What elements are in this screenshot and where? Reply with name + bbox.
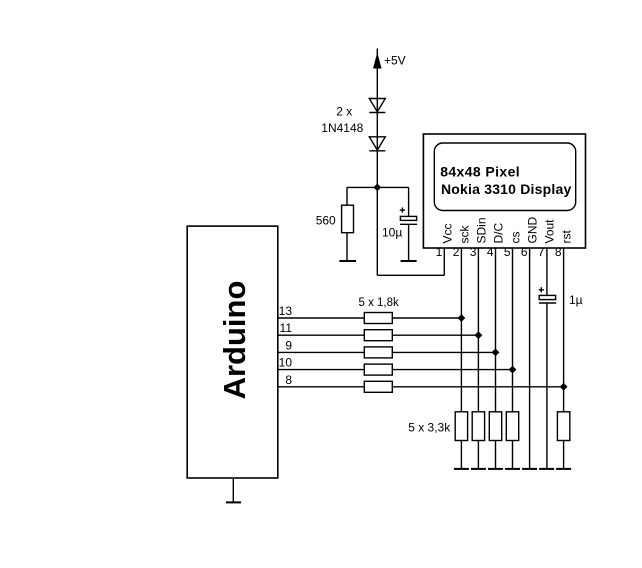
svg-text:sck: sck bbox=[458, 225, 472, 244]
svg-text:8: 8 bbox=[285, 373, 292, 387]
svg-text:+5V: +5V bbox=[384, 54, 406, 68]
svg-text:1: 1 bbox=[436, 245, 443, 259]
svg-text:D/C: D/C bbox=[492, 223, 506, 244]
svg-text:rst: rst bbox=[560, 230, 574, 244]
svg-text:10µ: 10µ bbox=[382, 225, 402, 239]
svg-text:10: 10 bbox=[279, 356, 293, 370]
svg-text:5 x 3,3k: 5 x 3,3k bbox=[408, 420, 451, 434]
svg-text:GND: GND bbox=[526, 217, 540, 244]
svg-text:Arduino: Arduino bbox=[217, 281, 252, 400]
svg-text:cs: cs bbox=[509, 232, 523, 244]
svg-text:560: 560 bbox=[316, 214, 336, 228]
svg-text:2: 2 bbox=[453, 245, 460, 259]
svg-text:Vcc: Vcc bbox=[440, 223, 454, 243]
svg-text:Vout: Vout bbox=[543, 219, 557, 244]
svg-text:1µ: 1µ bbox=[569, 293, 583, 307]
svg-text:2 x: 2 x bbox=[336, 105, 352, 119]
svg-text:SDin: SDin bbox=[475, 217, 489, 243]
svg-text:84x48 Pixel: 84x48 Pixel bbox=[440, 164, 520, 180]
svg-text:8: 8 bbox=[555, 245, 562, 259]
svg-text:3: 3 bbox=[470, 245, 477, 259]
svg-text:11: 11 bbox=[280, 321, 293, 335]
svg-text:5: 5 bbox=[504, 245, 511, 259]
svg-text:1N4148: 1N4148 bbox=[321, 121, 363, 135]
svg-text:4: 4 bbox=[487, 245, 494, 259]
svg-text:6: 6 bbox=[521, 245, 528, 259]
svg-text:5 x 1,8k: 5 x 1,8k bbox=[359, 297, 400, 309]
svg-text:7: 7 bbox=[538, 245, 545, 259]
svg-text:9: 9 bbox=[285, 338, 292, 352]
svg-text:Nokia 3310 Display: Nokia 3310 Display bbox=[441, 181, 571, 197]
svg-text:13: 13 bbox=[279, 304, 293, 318]
